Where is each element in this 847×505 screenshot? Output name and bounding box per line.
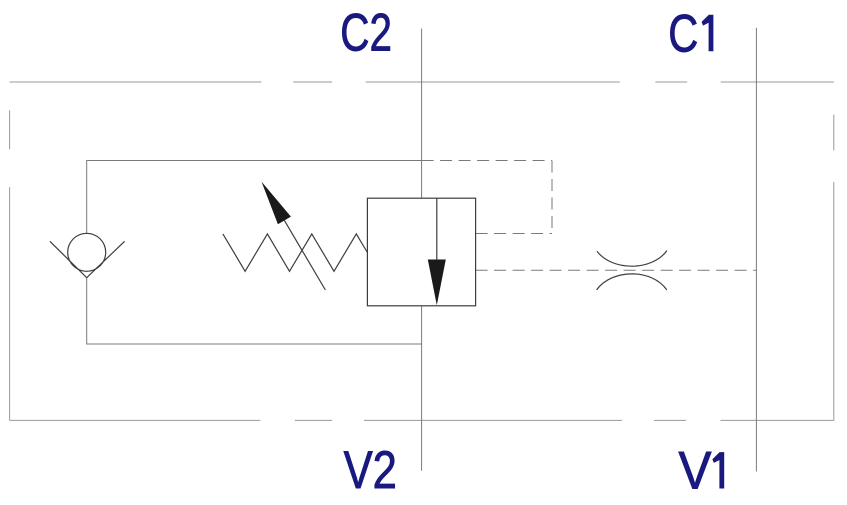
check valve seat	[50, 241, 125, 277]
orifice restrictor bottom arc	[597, 274, 667, 290]
pilot line dashed from valve to C1 through orifice	[476, 269, 757, 271]
dashed enclosure border bottom	[10, 419, 834, 421]
svg-text:V2: V2	[344, 441, 397, 500]
dashed enclosure border right	[833, 115, 835, 421]
svg-text:C2: C2	[340, 4, 392, 63]
flow arrow head inside valve	[428, 260, 446, 306]
dashed enclosure border left	[9, 110, 11, 420]
wire check-valve branch top	[87, 161, 422, 234]
check valve poppet circle	[68, 233, 106, 271]
port line C2	[421, 29, 423, 199]
wire check-valve branch bottom	[87, 278, 422, 344]
port line C1/V1	[755, 28, 757, 472]
svg-text:V: V	[679, 442, 713, 501]
adjustment arrow shaft	[284, 220, 325, 290]
valve body	[367, 198, 475, 306]
svg-text:C: C	[668, 4, 698, 63]
spring	[223, 234, 368, 271]
flow arrow line inside valve	[436, 198, 438, 259]
orifice restrictor top arc	[597, 251, 667, 267]
port line V2	[421, 306, 423, 471]
adjustment arrow head	[262, 182, 291, 225]
dashed enclosure border top	[10, 81, 834, 83]
pilot line dashed from C2 to valve spring chamber	[422, 161, 552, 234]
